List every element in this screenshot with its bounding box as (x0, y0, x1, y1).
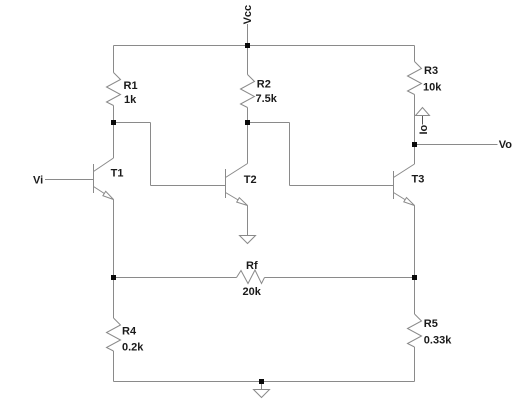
svg-text:R5: R5 (424, 318, 438, 330)
svg-text:7.5k: 7.5k (256, 93, 278, 105)
svg-text:R2: R2 (257, 79, 271, 91)
svg-text:0.2k: 0.2k (122, 342, 144, 354)
svg-text:1k: 1k (124, 94, 137, 106)
svg-text:0.33k: 0.33k (424, 334, 452, 346)
svg-text:Vcc: Vcc (242, 5, 254, 25)
svg-text:R1: R1 (124, 80, 138, 92)
svg-text:T1: T1 (111, 167, 124, 179)
svg-text:Io: Io (418, 124, 430, 134)
svg-text:R3: R3 (424, 65, 438, 77)
svg-text:Vo: Vo (499, 139, 513, 151)
svg-text:T2: T2 (244, 174, 257, 186)
svg-text:T3: T3 (412, 174, 425, 186)
svg-text:20k: 20k (243, 286, 262, 298)
svg-text:Vi: Vi (33, 174, 43, 186)
svg-text:R4: R4 (122, 325, 137, 337)
svg-text:Rf: Rf (246, 260, 258, 272)
svg-text:10k: 10k (423, 82, 442, 94)
